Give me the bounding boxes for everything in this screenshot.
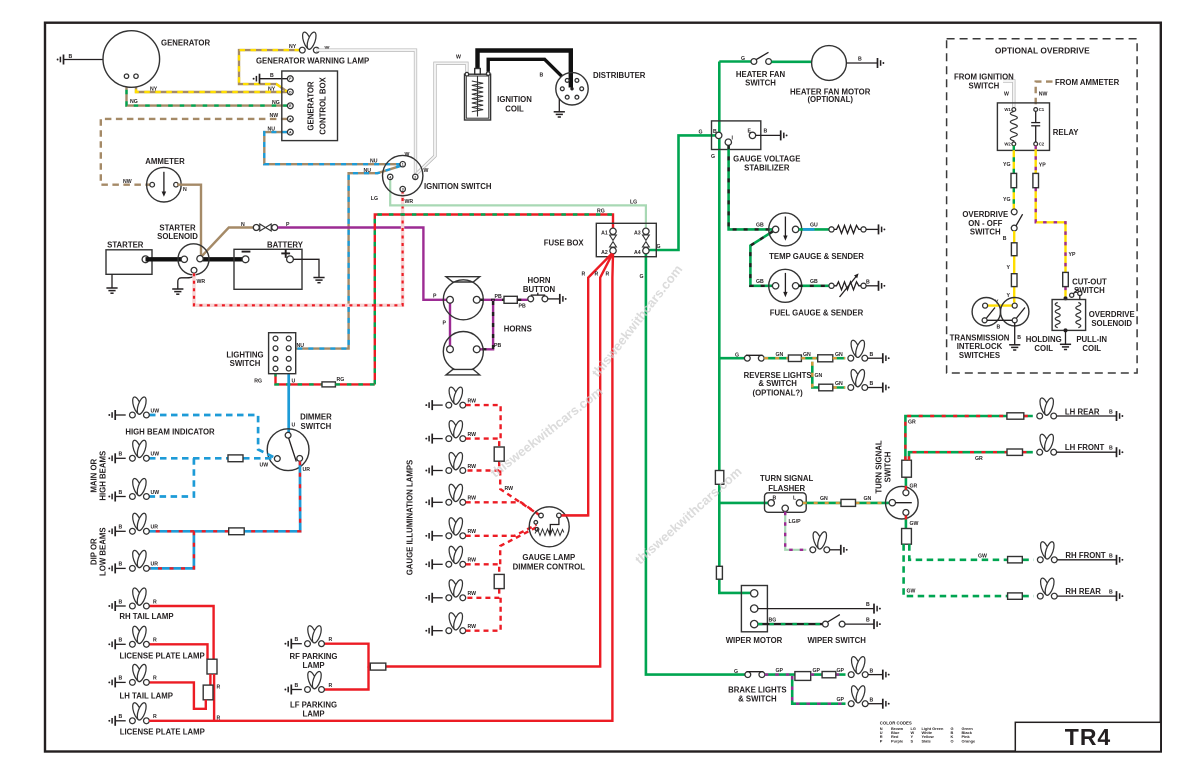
svg-text:R: R [153, 676, 157, 682]
svg-text:PB: PB [519, 304, 526, 310]
ground control box F terminal [253, 73, 288, 84]
svg-text:HIGH BEAMS: HIGH BEAMS [99, 451, 108, 501]
wire RW lamp 5 [466, 525, 537, 536]
svg-text:RG: RG [337, 377, 345, 383]
wire B wiper motor mid to ground [758, 602, 881, 614]
svg-text:LAMP: LAMP [302, 709, 324, 718]
inline connector R upper [207, 659, 217, 674]
wire R license lamp 2 stub [149, 720, 214, 722]
turn signal switch [875, 440, 919, 519]
svg-text:R: R [606, 272, 610, 278]
svg-text:GENERATOR: GENERATOR [307, 81, 316, 130]
battery [234, 240, 304, 289]
svg-text:G: G [699, 130, 703, 136]
wire R lf parking lamp [324, 667, 369, 690]
svg-text:SOLENOID: SOLENOID [157, 232, 198, 241]
inline connector Y 2 [1011, 274, 1017, 287]
svg-text:B: B [119, 452, 123, 458]
svg-text:RW: RW [468, 529, 477, 535]
wire GB fuel gauge to sender [799, 284, 829, 287]
svg-text:R: R [153, 638, 157, 644]
gauge illumination lamp 7 [425, 579, 476, 603]
svg-text:& SWITCH: & SWITCH [758, 379, 797, 388]
relay [997, 103, 1079, 150]
wire NW control box A to ammeter [101, 119, 288, 185]
svg-text:G: G [657, 244, 661, 250]
inline connector RH FRONT [1008, 557, 1023, 563]
wire LG ignition switch 4 to fuse A3 [390, 180, 646, 228]
wire G bus to flasher B [719, 502, 768, 505]
wire B stabilizer E to ground [756, 129, 788, 141]
svg-text:NU: NU [370, 159, 378, 165]
svg-text:R: R [595, 272, 599, 278]
svg-text:RW: RW [468, 496, 477, 502]
wire NY warning lamp branch [239, 50, 300, 91]
svg-text:2: 2 [414, 175, 416, 179]
overdrive dashed border [947, 39, 1138, 373]
ignition switch [383, 155, 492, 195]
svg-text:WIPER MOTOR: WIPER MOTOR [726, 636, 783, 645]
svg-text:A: A [289, 117, 292, 121]
svg-text:RH TAIL LAMP: RH TAIL LAMP [119, 612, 173, 621]
inline connector R parking [370, 663, 386, 670]
svg-text:YG: YG [1003, 162, 1011, 168]
reverse lamp 1 [848, 339, 890, 363]
svg-text:B: B [866, 602, 870, 608]
svg-text:TURN SIGNAL: TURN SIGNAL [760, 474, 814, 483]
fuel sender variable resistor [829, 273, 866, 297]
svg-text:CONTROL BOX: CONTROL BOX [319, 76, 328, 134]
wire NG generator to control box E [127, 78, 288, 105]
brake lamp 1 [848, 656, 889, 680]
svg-text:B: B [773, 496, 777, 502]
svg-text:NW: NW [123, 179, 132, 185]
svg-text:GENERATOR WARNING LAMP: GENERATOR WARNING LAMP [256, 56, 369, 65]
lh rear lamp [1037, 397, 1124, 421]
svg-text:GENERATOR: GENERATOR [161, 39, 210, 48]
svg-text:LOW BEAMS: LOW BEAMS [99, 527, 108, 576]
svg-text:COIL: COIL [1082, 344, 1101, 353]
svg-text:UR: UR [151, 525, 159, 531]
svg-text:GN: GN [815, 373, 823, 379]
rf parking lamp [284, 625, 337, 671]
wire B wiper switch to ground [845, 618, 881, 630]
svg-text:AMMETER: AMMETER [145, 157, 185, 166]
svg-text:HIGH BEAM INDICATOR: HIGH BEAM INDICATOR [125, 427, 215, 436]
inline connector UR [229, 528, 245, 535]
svg-text:B: B [295, 683, 299, 689]
svg-text:GP: GP [837, 668, 845, 674]
horn 2 [443, 325, 532, 375]
svg-text:W2: W2 [1004, 141, 1011, 146]
heater fan motor [790, 46, 871, 105]
svg-text:SWITCHES: SWITCHES [959, 351, 1000, 360]
svg-text:LH TAIL LAMP: LH TAIL LAMP [119, 692, 172, 701]
svg-text:RW: RW [505, 486, 514, 492]
svg-text:Orange: Orange [962, 738, 976, 743]
wire R connector down to bottom run [213, 674, 215, 721]
wire GR to LH FRONT [909, 452, 1033, 460]
wire NY generator to control box D [136, 78, 287, 92]
fuel gauge [769, 269, 864, 317]
svg-text:(OPTIONAL?): (OPTIONAL?) [752, 389, 803, 398]
svg-text:YG: YG [1003, 197, 1011, 203]
svg-text:WIPER SWITCH: WIPER SWITCH [807, 636, 866, 645]
main beam lamp lower [108, 477, 159, 501]
wire GN switch to connector [764, 357, 788, 360]
svg-text:NU: NU [268, 127, 276, 133]
svg-text:RELAY: RELAY [1053, 128, 1080, 137]
svg-text:GR: GR [908, 419, 916, 425]
svg-text:IGNITION: IGNITION [497, 95, 532, 104]
svg-text:GU: GU [810, 223, 818, 229]
ground overdrive solenoid [1060, 330, 1071, 349]
dimmer switch [267, 412, 332, 470]
svg-text:HOLDING: HOLDING [1026, 335, 1062, 344]
svg-text:R: R [329, 683, 333, 689]
svg-text:SWITCH: SWITCH [230, 359, 261, 368]
starter [106, 241, 152, 275]
wire RG lighting switch to fuse A1 [375, 215, 613, 385]
svg-text:N: N [183, 187, 187, 193]
svg-text:NY: NY [268, 87, 276, 93]
ammeter [145, 157, 185, 202]
license plate lamp 1 [108, 625, 204, 660]
cut-out switch contacts [1064, 289, 1082, 301]
wire R license plate lamp 1 [149, 644, 208, 659]
svg-text:R: R [582, 272, 586, 278]
wire UW branch to second main beam lamp [149, 458, 194, 496]
svg-text:GR: GR [910, 483, 918, 489]
svg-text:CUT-OUT: CUT-OUT [1072, 277, 1107, 286]
svg-text:RW: RW [468, 432, 477, 438]
wire B motor to ground [846, 56, 884, 68]
svg-text:LG: LG [630, 200, 637, 206]
svg-text:B: B [119, 490, 123, 496]
svg-text:B: B [713, 129, 717, 135]
wire P connector to horns [278, 228, 447, 300]
wire GW to RH REAR [904, 544, 1034, 596]
svg-text:GW: GW [978, 553, 987, 559]
svg-text:LG/P: LG/P [789, 519, 802, 525]
svg-text:NW: NW [1039, 91, 1048, 97]
inline connector PB [504, 296, 517, 303]
svg-text:A2: A2 [601, 250, 608, 256]
gauge illumination lamp 4 [425, 483, 476, 507]
fuse box [544, 223, 657, 256]
wire GW to RH FRONT [909, 544, 1033, 560]
svg-text:1: 1 [402, 163, 404, 167]
wire R dimmer control to fuse vertical [562, 514, 589, 516]
svg-text:(OPTIONAL): (OPTIONAL) [807, 95, 853, 104]
wire B interlock to ground [1009, 323, 1021, 350]
svg-text:B: B [270, 73, 274, 79]
svg-text:R: R [153, 599, 157, 605]
svg-text:UW: UW [260, 462, 269, 468]
brake light switch [745, 672, 765, 678]
wire GR switch up to connector [905, 477, 908, 490]
svg-text:W: W [424, 168, 429, 174]
svg-text:TURN SIGNAL: TURN SIGNAL [875, 440, 884, 494]
ignition coil [465, 69, 533, 121]
wiper motor [726, 586, 783, 646]
wire LG/P flasher P to pilot lamp [785, 512, 806, 550]
inline connector Y 1 [1011, 243, 1017, 256]
svg-text:UR: UR [303, 467, 311, 473]
svg-text:Y: Y [1007, 265, 1011, 271]
svg-text:B: B [1109, 553, 1113, 559]
svg-text:SWITCH: SWITCH [884, 451, 893, 482]
svg-text:UR: UR [151, 562, 159, 568]
svg-text:RG: RG [254, 378, 262, 384]
ground solenoid [172, 273, 194, 294]
ground generator B [57, 55, 64, 65]
ground starter [106, 274, 117, 293]
wire NU control box A1 to ignition switch 1 [264, 132, 400, 164]
svg-text:SOLENOID: SOLENOID [1091, 319, 1132, 328]
svg-text:GN: GN [864, 496, 872, 502]
overdrive on-off switch [962, 209, 1022, 236]
svg-text:PB: PB [495, 294, 502, 300]
svg-text:U: U [292, 378, 296, 384]
inline connector R lower [203, 685, 213, 700]
wire GP branch to brake lamp 2 [792, 676, 845, 704]
svg-text:LH FRONT: LH FRONT [1065, 443, 1105, 452]
svg-text:R: R [217, 684, 221, 690]
thick cable starter to solenoid [146, 257, 185, 261]
lh tail lamp [108, 663, 173, 700]
generator control box [282, 71, 338, 141]
svg-text:Slate: Slate [922, 738, 932, 743]
wire P horn1 to horn2 [449, 303, 451, 346]
wire W ignition switch 2 to coil [417, 63, 467, 174]
svg-text:MAIN OR: MAIN OR [90, 458, 99, 492]
svg-text:RW: RW [468, 398, 477, 404]
wire UW main beam lamps to dimmer [149, 457, 275, 460]
wire G main bus heater switch to stabilizer [718, 62, 721, 151]
svg-text:TR4: TR4 [1065, 724, 1111, 750]
svg-text:B: B [1003, 236, 1007, 242]
svg-text:SWITCH: SWITCH [301, 422, 332, 431]
wire R rf parking lamp [324, 644, 371, 667]
wire battery + to ground [293, 259, 324, 282]
thick lead coil to distributor body [488, 59, 562, 76]
svg-text:COIL: COIL [505, 104, 524, 113]
svg-text:G: G [711, 154, 715, 160]
inline connector LH FRONT [1007, 449, 1023, 455]
svg-text:GN: GN [776, 352, 784, 358]
generator [103, 31, 210, 88]
svg-text:COIL: COIL [1034, 344, 1053, 353]
svg-text:LF PARKING: LF PARKING [290, 700, 337, 709]
rh tail lamp [108, 587, 173, 621]
svg-text:GW: GW [907, 588, 916, 594]
starter solenoid [157, 223, 209, 274]
svg-text:RW: RW [468, 591, 477, 597]
svg-text:B: B [119, 714, 123, 720]
generator warning lamp [256, 31, 369, 65]
wire W warning lamp to ignition switch 2 [316, 50, 416, 174]
svg-text:LICENSE PLATE LAMP: LICENSE PLATE LAMP [120, 727, 205, 736]
horn button [523, 276, 556, 302]
svg-text:B: B [1017, 335, 1021, 341]
svg-text:UW: UW [151, 408, 160, 414]
svg-text:GP: GP [837, 697, 845, 703]
wire GN branch down to reverse lamp 2 [812, 362, 845, 388]
temp sender resistor [829, 225, 866, 233]
svg-text:BG: BG [769, 618, 777, 624]
svg-text:UW: UW [151, 490, 160, 496]
svg-text:DISTRIBUTER: DISTRIBUTER [593, 71, 646, 80]
svg-text:NY: NY [150, 87, 158, 93]
svg-text:NU: NU [297, 343, 305, 349]
wire RW lamps 6-8 chain [466, 528, 536, 631]
svg-text:B: B [764, 129, 768, 135]
svg-text:B: B [119, 676, 123, 682]
svg-text:P: P [880, 738, 883, 743]
svg-text:B: B [119, 562, 123, 568]
svg-text:GB: GB [756, 223, 764, 229]
svg-text:G: G [741, 56, 745, 62]
svg-text:B: B [69, 54, 73, 60]
svg-text:B: B [295, 637, 299, 643]
svg-text:NY: NY [289, 44, 297, 50]
dip beam lamp lower [108, 549, 158, 573]
svg-text:R: R [329, 637, 333, 643]
svg-text:A: A [289, 131, 292, 135]
svg-text:B: B [540, 73, 544, 79]
svg-text:B: B [1109, 446, 1113, 452]
svg-text:B: B [870, 697, 874, 703]
svg-text:A4: A4 [634, 250, 641, 256]
svg-text:NG: NG [130, 99, 138, 105]
svg-text:RW: RW [468, 624, 477, 630]
thick HT lead coil to distributor [478, 51, 571, 88]
turn pilot lamp [810, 531, 848, 555]
svg-text:GP: GP [813, 668, 821, 674]
svg-text:LICENSE PLATE LAMP: LICENSE PLATE LAMP [119, 652, 204, 661]
reverse lights switch [744, 355, 764, 361]
svg-text:SWITCH: SWITCH [970, 227, 1001, 236]
gauge illumination lamp 8 [425, 612, 476, 636]
inline connector LH REAR [1007, 413, 1024, 419]
svg-text:RH FRONT: RH FRONT [1065, 551, 1106, 560]
svg-text:NW: NW [270, 113, 279, 119]
lf parking lamp [284, 670, 337, 718]
brake lamp 2 [848, 685, 889, 709]
wire R fuse A2 to tail lamps [214, 254, 613, 721]
wire UW high beam indicator to dimmer [149, 415, 275, 458]
wire GR to LH REAR [905, 416, 1032, 460]
svg-text:TRANSMISSION: TRANSMISSION [950, 333, 1010, 342]
svg-text:NU: NU [364, 168, 372, 174]
inline connector GP 2 [822, 672, 836, 678]
wire Y on-off switch to interlock [1013, 231, 1015, 303]
gauge illumination lamp 2 [425, 420, 476, 444]
high beam indicator lamp [108, 396, 215, 436]
rh rear lamp [1037, 577, 1123, 601]
svg-text:GAUGE ILLUMINATION LAMPS: GAUGE ILLUMINATION LAMPS [406, 460, 415, 576]
svg-text:LG: LG [371, 196, 378, 202]
svg-text:PB: PB [494, 343, 501, 349]
svg-text:DIP OR: DIP OR [90, 538, 99, 565]
svg-text:B: B [1109, 410, 1113, 416]
svg-text:N: N [241, 222, 245, 228]
horn 1 [443, 277, 483, 320]
license plate lamp 2 [108, 702, 205, 737]
svg-text:UW: UW [151, 452, 160, 458]
svg-text:R: R [217, 715, 221, 721]
inline connector YP 1 [1033, 173, 1039, 187]
svg-text:R: R [153, 714, 157, 720]
svg-text:SWITCH: SWITCH [745, 78, 776, 87]
main beam lamp upper [108, 439, 159, 463]
svg-text:GN: GN [835, 381, 843, 387]
svg-text:GN: GN [835, 352, 843, 358]
svg-text:GAUGE VOLTAGE: GAUGE VOLTAGE [733, 154, 800, 163]
inline fuse RG [322, 382, 335, 387]
svg-text:S: S [911, 738, 914, 743]
svg-text:GN: GN [820, 496, 828, 502]
ground distributor [554, 99, 565, 117]
wire GB temp gauge to fuel gauge [750, 231, 772, 285]
svg-text:LAMP: LAMP [302, 661, 324, 670]
wire R rh tail lamp [149, 606, 214, 659]
lighting switch [226, 333, 295, 374]
svg-text:PULL-IN: PULL-IN [1076, 335, 1107, 344]
svg-text:FLASHER: FLASHER [768, 484, 805, 493]
svg-text:G: G [735, 353, 739, 359]
svg-text:OPTIONAL OVERDRIVE: OPTIONAL OVERDRIVE [995, 45, 1090, 55]
wire UR branch to second dip lamp [149, 531, 194, 568]
svg-text:GB: GB [810, 279, 818, 285]
wire Y between interlock switches [988, 304, 1012, 306]
gauge illumination lamp 6 [425, 545, 476, 569]
gauge lamp dimmer control [513, 507, 586, 572]
svg-text:B: B [858, 56, 862, 62]
junction connector GP [795, 672, 811, 681]
gauge illumination lamp 5 [425, 517, 476, 541]
svg-text:C1: C1 [1039, 107, 1045, 112]
transmission interlock switches [950, 298, 1029, 360]
svg-text:A3: A3 [634, 231, 641, 237]
wire BG wiper motor to wiper switch [758, 623, 823, 625]
wire RW lamp 4 [466, 502, 540, 515]
wire R fuse A2 to gauge lamp dimmer control [562, 254, 613, 516]
svg-text:RW: RW [468, 558, 477, 564]
svg-text:W1: W1 [1004, 107, 1011, 112]
svg-text:FROM AMMETER: FROM AMMETER [1055, 78, 1120, 87]
svg-text:GB: GB [756, 279, 764, 285]
wire YG relay W2 to on-off switch [1013, 146, 1015, 209]
svg-text:B: B [119, 638, 123, 644]
svg-text:DIMMER: DIMMER [300, 412, 332, 421]
svg-text:COLOR CODES: COLOR CODES [880, 721, 912, 726]
wire N ammeter to starter solenoid [177, 185, 201, 257]
svg-text:B: B [870, 352, 874, 358]
inline connector G bus upper [715, 471, 723, 485]
thick cable solenoid to battery [200, 257, 246, 261]
reverse lamp 2 [848, 368, 890, 392]
title block TR4 [1015, 722, 1161, 751]
wire GU temp gauge to sender [799, 228, 829, 231]
svg-text:W: W [1004, 91, 1009, 97]
svg-text:B: B [870, 381, 874, 387]
svg-text:GAUGE LAMP: GAUGE LAMP [522, 553, 575, 562]
wire N solenoid to inline connector [202, 228, 254, 257]
svg-text:YP: YP [1039, 163, 1046, 169]
wire G fuse A4 to stabilizer B [649, 135, 715, 250]
